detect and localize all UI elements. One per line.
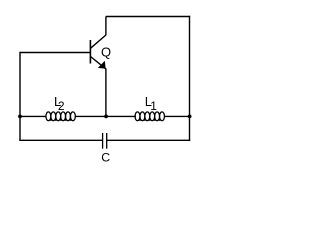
capacitor C [103,133,107,149]
wire emitter vertical [105,69,107,117]
svg-text:C: C [101,151,110,165]
wire tank row middle (L2 to L1) [75,115,136,117]
svg-text:1: 1 [150,99,157,113]
wire bottom right (capacitor to right) [107,139,190,141]
wire tank row right (L1 to node C) [165,115,190,117]
svg-text:2: 2 [58,99,65,113]
wire top (collector to right top corner) [106,16,190,18]
wire base (node B to transistor base) [20,52,91,54]
wire collector vertical [105,17,107,36]
node right (collector junction) [188,114,192,118]
wire bottom left (to capacitor) [19,139,102,141]
inductor L2 [46,112,75,121]
node left (base junction) [18,115,22,119]
wire tank row left (node B to L2) [20,115,47,117]
wire right vertical [189,16,191,141]
wire left vertical [19,52,21,141]
node middle (emitter junction) [104,115,108,119]
svg-text:Q: Q [101,45,111,60]
inductor L1 [135,112,164,121]
transistor Q [90,35,106,69]
